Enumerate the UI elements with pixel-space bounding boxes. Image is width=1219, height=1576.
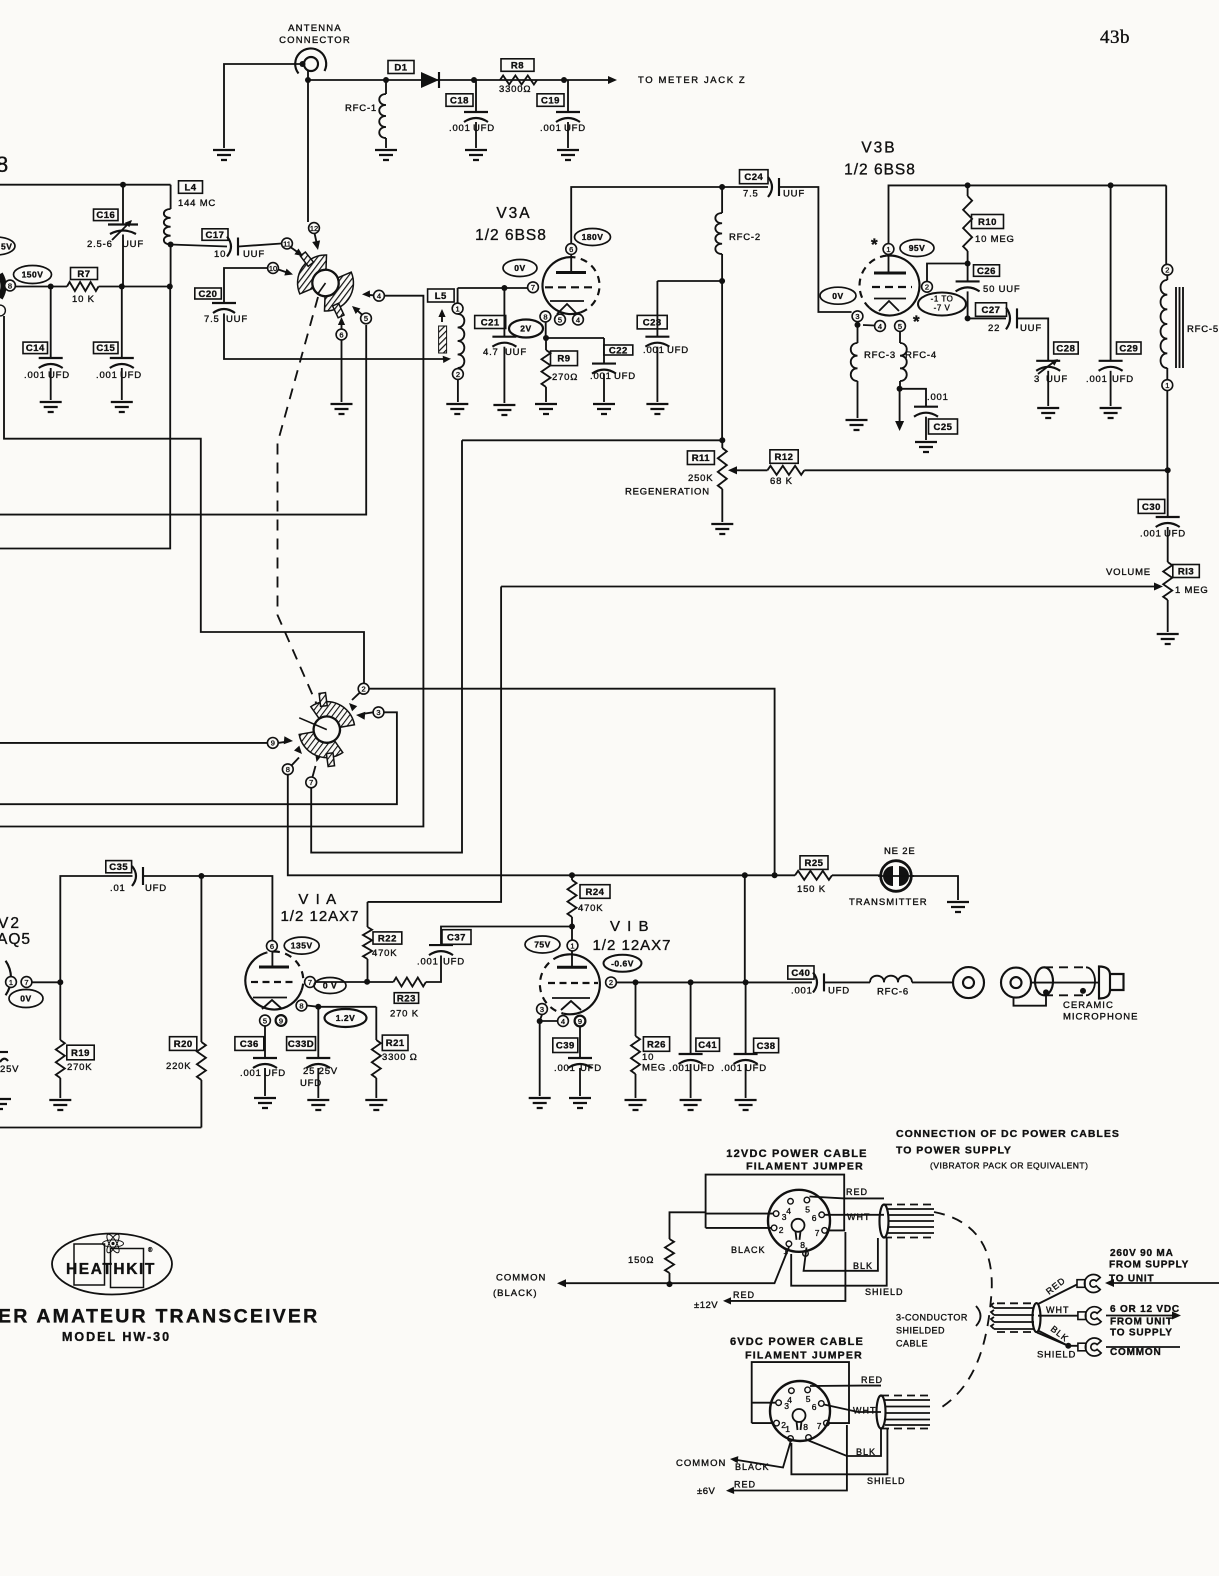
6V WHT wire (824, 1405, 881, 1413)
capacitor C30 label box (1138, 499, 1165, 513)
svg-text:0V: 0V (832, 291, 843, 301)
svg-text:.001: .001 (590, 371, 612, 382)
wire top-left feed (0, 184, 171, 186)
svg-text:C26: C26 (977, 266, 996, 277)
ground left edge partial (0, 1099, 11, 1109)
svg-text:1/2 6BS8: 1/2 6BS8 (844, 162, 916, 179)
supply lug red (1077, 1275, 1100, 1293)
wire V3B plate rail (889, 185, 1167, 243)
svg-text:C16: C16 (96, 210, 115, 221)
svg-text:75V: 75V (534, 940, 551, 950)
12V socket pin 6 (819, 1212, 825, 1218)
wire RFC-2 to R11 (721, 281, 723, 440)
svg-text:5V: 5V (1, 242, 12, 252)
svg-text:AQ5: AQ5 (0, 931, 31, 948)
svg-text:WHT: WHT (853, 1406, 877, 1416)
svg-text:2: 2 (925, 283, 929, 292)
svg-text:C29: C29 (1119, 343, 1138, 354)
ground C33D (307, 1100, 329, 1110)
ground C29 (1100, 408, 1122, 418)
wire antenna node down to mixer pin 12 (307, 80, 309, 222)
svg-text:C37: C37 (447, 932, 466, 943)
3-conductor brace (976, 1306, 981, 1326)
voltage 0V V3B (820, 287, 856, 304)
capacitor C36 label box (235, 1037, 264, 1051)
svg-text:5: 5 (558, 315, 562, 324)
ground L5 (446, 404, 468, 414)
voltage 75V (525, 936, 560, 953)
12V SHIELD wire (791, 1238, 887, 1286)
resistor R13 label box (1173, 565, 1200, 578)
svg-text:C33D: C33D (288, 1039, 314, 1050)
svg-text:UUF: UUF (505, 347, 527, 358)
resistor R7 (67, 282, 99, 291)
svg-text:CERAMIC: CERAMIC (1063, 1000, 1114, 1011)
capacitor C20 label box (195, 288, 222, 300)
V1A pin 8 (296, 1000, 307, 1011)
svg-text:6VDC POWER CABLE: 6VDC POWER CABLE (730, 1336, 864, 1348)
V3B pin 2 (922, 281, 933, 292)
wire NE2E to ground (912, 876, 959, 900)
mixer pin 10 arrow (278, 270, 290, 274)
svg-text:SHIELD: SHIELD (1037, 1350, 1076, 1361)
node V1B pin3-4 (537, 1018, 543, 1024)
capacitor C14 (39, 287, 63, 401)
svg-text:4: 4 (878, 322, 882, 331)
RFC-1 choke (345, 77, 389, 148)
node R19 top (57, 979, 63, 985)
svg-text:22: 22 (988, 323, 1000, 334)
capacitor C41 label box (696, 1038, 720, 1051)
svg-text:UFD: UFD (1164, 529, 1186, 540)
svg-text:UFD: UFD (300, 1078, 322, 1089)
svg-text:C24: C24 (744, 172, 763, 183)
svg-text:5: 5 (805, 1205, 811, 1215)
capacitor C35 label box (106, 861, 132, 874)
svg-text:V3A: V3A (496, 205, 531, 222)
svg-text:FILAMENT JUMPER: FILAMENT JUMPER (745, 1350, 863, 1362)
svg-text:R20: R20 (174, 1039, 193, 1050)
V1A cathode (253, 997, 287, 999)
wire pin4 to node (540, 1020, 558, 1022)
V3B grid dashed (872, 286, 912, 288)
svg-text:SHIELD: SHIELD (867, 1476, 906, 1486)
RFC-5 pin 2 (1162, 264, 1173, 275)
svg-text:1: 1 (886, 245, 890, 254)
svg-text:RED: RED (734, 1480, 756, 1490)
V3A pin 7 (528, 282, 539, 293)
neon lamp NE2E transmitter (878, 861, 914, 892)
svg-text:.001: .001 (240, 1068, 262, 1079)
V1A pin 6 (267, 941, 278, 952)
capacitor C15 (110, 287, 134, 401)
resistor R8 label box (501, 59, 534, 72)
capacitor C39 label box (553, 1038, 578, 1053)
node C38 (743, 979, 749, 985)
V2 pin 7 (21, 977, 32, 988)
12V socket pin 2 (771, 1225, 777, 1231)
svg-text:UUF: UUF (226, 314, 248, 325)
resistor R23 label box (394, 993, 418, 1005)
node C14 (48, 284, 54, 290)
capacitor C22 (592, 338, 616, 402)
svg-text:5: 5 (898, 322, 902, 331)
ground RFC-1 (375, 150, 397, 160)
mixer pin 4 arrow (366, 294, 374, 297)
wire mixer pin4 down-left bus (0, 296, 423, 827)
tube V3B envelope (869, 255, 919, 315)
resistor R23 (393, 978, 426, 987)
capacitor C26 label box (974, 265, 1000, 277)
svg-text:.001: .001 (554, 1063, 576, 1074)
svg-text:270 K: 270 K (390, 1009, 419, 1020)
ground R11 (711, 524, 733, 534)
V1B pin 4 (558, 1016, 569, 1027)
capacitor C19 label box (537, 94, 564, 107)
svg-text:FROM UNIT: FROM UNIT (1110, 1317, 1173, 1328)
capacitor C38 label box (754, 1038, 779, 1053)
capacitor C25 label box (929, 419, 958, 434)
svg-text:220K: 220K (166, 1061, 191, 1072)
node C35 R20 (198, 873, 204, 879)
capacitor C38 (734, 875, 758, 1098)
V1A pin 9 (276, 1015, 287, 1026)
svg-text:68 K: 68 K (770, 476, 793, 487)
V1B grid dashed (548, 982, 598, 984)
svg-text:R22: R22 (378, 933, 397, 944)
svg-text:2: 2 (779, 1225, 785, 1235)
node L4 top (120, 182, 126, 188)
mixer pin 4 (374, 290, 385, 301)
resistor R26 (631, 982, 640, 1098)
svg-text:UFD: UFD (443, 957, 465, 968)
svg-text:7.5: 7.5 (204, 314, 220, 325)
V3B pin 4 (875, 321, 886, 332)
svg-text:C22: C22 (609, 345, 628, 356)
wire L4 bus (0, 287, 170, 549)
svg-text:0V: 0V (20, 994, 31, 1004)
arrow to meter jack (608, 76, 617, 84)
RFC-5 pin 1 (1162, 380, 1173, 391)
V3B pin 3 (852, 311, 863, 322)
svg-text:D1: D1 (394, 62, 407, 73)
svg-text:4: 4 (561, 1017, 565, 1026)
voltage 0V V2 (9, 990, 43, 1008)
resistor R11 potentiometer (718, 440, 727, 522)
ground NE2E (947, 902, 969, 912)
svg-text:CONNECTOR: CONNECTOR (279, 35, 351, 46)
svg-text:TO SUPPLY: TO SUPPLY (1110, 1328, 1173, 1339)
svg-text:±12V: ±12V (694, 1300, 718, 1311)
resistor R26 label box (643, 1037, 669, 1052)
capacitor C40 (813, 972, 817, 992)
mixer pin 5 (361, 313, 372, 324)
svg-text:NE 2E: NE 2E (884, 846, 915, 857)
svg-text:.001: .001 (721, 1063, 743, 1074)
ground C38 (735, 1100, 757, 1110)
V3A pin 6 (566, 244, 577, 255)
svg-text:.001: .001 (24, 370, 46, 381)
C20 wire arrow into L5 (443, 356, 451, 363)
capacitor C16 variable (108, 185, 138, 287)
svg-text:11: 11 (283, 239, 291, 248)
svg-text:BLK: BLK (853, 1261, 873, 1271)
mixer V4 rotary unit (293, 246, 358, 323)
svg-text:WHT: WHT (1046, 1305, 1070, 1315)
ground C41 (680, 1100, 702, 1110)
inductor L5 label box (428, 289, 455, 302)
V3B heater (879, 301, 899, 311)
svg-text:270K: 270K (67, 1062, 92, 1073)
svg-text:9: 9 (279, 1016, 283, 1025)
svg-text:L5: L5 (435, 291, 447, 302)
ground C15 (111, 402, 133, 412)
RFC-3 choke (851, 325, 896, 418)
svg-text:V I A: V I A (298, 891, 337, 908)
capacitor C21 (492, 288, 516, 403)
V3A pin 8 (540, 311, 551, 322)
V1A pin 5 (260, 1015, 271, 1026)
svg-text:RED: RED (861, 1375, 883, 1385)
capacitor C27 (968, 307, 1049, 360)
svg-text:COMMON: COMMON (1110, 1347, 1161, 1358)
RFC-5 choke (1161, 275, 1219, 380)
svg-text:3: 3 (782, 1212, 788, 1222)
svg-text:10: 10 (642, 1052, 654, 1063)
svg-text:V3B: V3B (861, 140, 896, 157)
svg-text:UUF: UUF (1046, 374, 1068, 385)
svg-text:FROM SUPPLY: FROM SUPPLY (1109, 1260, 1189, 1271)
svg-text:UUF: UUF (122, 239, 144, 250)
svg-text:*: * (913, 312, 920, 331)
capacitor C35 (132, 866, 272, 940)
V3A grid dashed (545, 286, 594, 288)
svg-text:UFD: UFD (48, 370, 70, 381)
svg-text:UFD: UFD (745, 1063, 767, 1074)
svg-text:6: 6 (812, 1213, 818, 1223)
mixer2 pin 9 (267, 738, 278, 749)
wire pin8 to R7 (15, 286, 67, 288)
dashed cable curve (934, 1212, 992, 1407)
svg-text:C20: C20 (199, 289, 218, 300)
resistor R24 label box (580, 885, 610, 899)
svg-text:8: 8 (299, 1001, 303, 1010)
diode D1 label box (388, 61, 414, 74)
resistor R10 (963, 182, 972, 263)
svg-text:260V 90 MA: 260V 90 MA (1110, 1248, 1174, 1259)
svg-text:C14: C14 (26, 343, 45, 354)
svg-text:R8: R8 (511, 60, 524, 71)
wire mixer pin6 to ground (341, 340, 343, 402)
voltage 95V V3B (900, 240, 934, 257)
svg-text:2.5-6: 2.5-6 (87, 239, 113, 250)
wire antenna down to node (307, 71, 309, 80)
wire pin8 to R21 (307, 1006, 376, 1007)
inductor L4 (164, 185, 171, 245)
svg-text:1: 1 (785, 1424, 791, 1434)
capacitor C19 (556, 80, 580, 148)
mixer2 pin 2 (358, 683, 369, 694)
RFC-2 choke (715, 187, 761, 281)
svg-text:9: 9 (578, 1017, 582, 1026)
voltage -0.6V (604, 955, 642, 972)
capacitor C23 label box (637, 315, 667, 329)
6V socket pin 2 (774, 1420, 780, 1426)
svg-text:RFC-5: RFC-5 (1187, 324, 1219, 335)
svg-text:4: 4 (576, 315, 580, 324)
partial capacitor C34 left edge (0, 1051, 8, 1053)
voltage 180V V3A (575, 229, 611, 246)
svg-text:UFD: UFD (614, 371, 636, 382)
svg-text:R25: R25 (805, 858, 824, 869)
voltage 0V V1A (314, 978, 346, 994)
supply lug wht (1078, 1307, 1101, 1325)
capacitor C15 label box (94, 342, 119, 354)
mixer pin 6 (336, 329, 347, 340)
node C33D (315, 1004, 321, 1010)
svg-text:C23: C23 (643, 318, 662, 329)
V1A pin 7 (305, 977, 316, 988)
V1B output wire (616, 981, 812, 983)
svg-text:C28: C28 (1056, 343, 1075, 354)
mixer pin 10 (268, 263, 279, 274)
mixer2 V1 osc rotary unit (288, 686, 366, 774)
6V socket pin 4 (789, 1388, 795, 1394)
wire V1A pin7 to R23 (315, 981, 393, 983)
resistor R22 (363, 902, 372, 982)
microphone plug (1001, 967, 1124, 1006)
svg-text:BLACK: BLACK (731, 1245, 766, 1255)
ground R9 (535, 404, 557, 414)
wire L4 to R7 rail (170, 245, 172, 287)
wire volume to R22 (368, 587, 502, 902)
capacitor C17 label box (202, 229, 228, 241)
mixer pin 12 arrow (315, 234, 318, 247)
svg-text:(VIBRATOR PACK OR EQUIVALEN: (VIBRATOR PACK OR EQUIVALENT) (930, 1161, 1088, 1171)
resistor R25 (775, 871, 881, 880)
svg-text:TO METER JACK Z: TO METER JACK Z (638, 75, 746, 86)
svg-text:.01: .01 (110, 883, 126, 894)
svg-text:*: * (871, 235, 878, 254)
wire L5 to ground (457, 380, 459, 403)
svg-text:.001: .001 (669, 1063, 691, 1074)
wire C35 to V2 grid (60, 876, 132, 982)
svg-text:.001: .001 (1140, 529, 1162, 540)
6V socket pin 5 (805, 1387, 811, 1393)
svg-text:3300 Ω: 3300 Ω (382, 1052, 418, 1063)
svg-text:180V: 180V (582, 232, 604, 242)
node C18 (471, 77, 477, 83)
capacitor C28 label box (1054, 342, 1079, 354)
arrow to unit (1108, 1282, 1219, 1284)
capacitor C33D (306, 1007, 330, 1098)
node main meter line (305, 77, 311, 83)
capacitor C24 label box (740, 170, 769, 184)
svg-text:RED: RED (846, 1187, 868, 1197)
svg-text:7: 7 (531, 283, 535, 292)
svg-text:UFD: UFD (693, 1063, 715, 1074)
L5 core arrow (441, 313, 443, 322)
svg-text:TRANSMITTER: TRANSMITTER (849, 897, 928, 908)
V1A grid dashed (251, 981, 296, 983)
voltage 0V V3A (503, 260, 537, 277)
node RFC-2 C23 (719, 278, 725, 284)
V1B pin 1 (567, 940, 578, 951)
node V3A grid (501, 285, 507, 291)
mixer2 pin 3 (373, 707, 384, 718)
svg-text:R7: R7 (77, 269, 90, 280)
12V socket pin 1 (786, 1241, 792, 1247)
resistor R12 (741, 466, 1168, 475)
resistor R20 label box (170, 1037, 197, 1051)
6V BLK wire (809, 1429, 882, 1456)
mixer2 pin 7 (306, 777, 317, 788)
wire V2 pin7 to R19 (32, 981, 60, 983)
12V RED wire (810, 1197, 885, 1199)
svg-text:C25: C25 (934, 422, 953, 433)
capacitor C41 (679, 982, 703, 1098)
svg-text:CONNECTION OF DC POWER CAB: CONNECTION OF DC POWER CABLES (896, 1128, 1120, 1140)
ground C23 (646, 404, 668, 414)
svg-text:C19: C19 (541, 95, 560, 106)
voltage 2V V3A cathode (509, 320, 543, 338)
svg-text:25V: 25V (0, 1064, 19, 1075)
svg-text:UFD: UFD (1112, 374, 1134, 385)
svg-text:5: 5 (364, 314, 368, 323)
svg-text:6: 6 (812, 1402, 818, 1412)
svg-text:12: 12 (310, 224, 318, 233)
svg-text:.001: .001 (791, 986, 813, 997)
V1B plate (557, 951, 587, 967)
svg-text:®: ® (148, 1247, 153, 1254)
node C26 top (965, 261, 971, 267)
tube V1B envelope (560, 954, 600, 1014)
svg-text:.001: .001 (540, 123, 562, 134)
svg-text:1: 1 (456, 304, 460, 313)
6V SHIELD wire (791, 1429, 887, 1474)
capacitor C25 (900, 389, 938, 440)
node R26 (633, 979, 639, 985)
mixer2 pin 2 arrow (352, 693, 360, 700)
svg-text:144 MC: 144 MC (178, 198, 216, 209)
capacitor C17 (171, 237, 282, 257)
capacitor C36 (253, 1026, 277, 1096)
svg-text:C21: C21 (481, 317, 500, 328)
svg-text:MODEL HW-30: MODEL HW-30 (62, 1330, 171, 1344)
ground R19 (49, 1100, 71, 1110)
svg-text:270Ω: 270Ω (552, 372, 578, 383)
svg-text:UUF: UUF (783, 189, 805, 200)
svg-text:WHT: WHT (847, 1212, 871, 1222)
svg-text:6: 6 (339, 330, 343, 339)
12V 150 ohm resistor (665, 1212, 706, 1284)
R11 wiper arrow (734, 469, 741, 471)
wire C24 to V3B grid (779, 187, 852, 312)
svg-text:UFD: UFD (564, 123, 586, 134)
svg-text:R12: R12 (775, 452, 794, 463)
12V socket shell (768, 1190, 830, 1252)
wire R7 to L4 node (99, 286, 171, 288)
svg-text:MEG: MEG (642, 1063, 666, 1074)
resistor R24 (568, 875, 577, 940)
wire plate rail to RFC-5 (1165, 185, 1167, 264)
svg-text:R24: R24 (586, 887, 605, 898)
svg-text:UFD: UFD (120, 370, 142, 381)
svg-text:SHIELD: SHIELD (865, 1287, 904, 1297)
wire mixer2 pin2 to R25 bus (369, 689, 774, 876)
wire bus to R11 (462, 439, 722, 441)
mixer2 pin 3 arrow (362, 712, 373, 714)
